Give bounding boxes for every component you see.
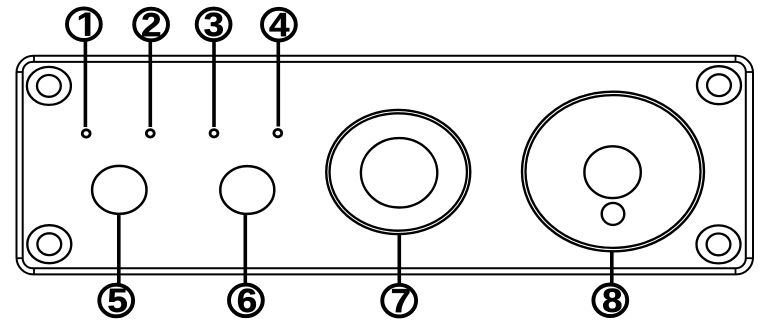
screw bottom-left [27,225,71,263]
callout 5 [99,285,133,317]
leader line 4 [276,39,280,127]
panel inner face outline [23,62,746,268]
leader line 3 [212,39,216,127]
callout 4 [262,9,296,41]
led indicator 2 [146,130,154,137]
led indicator 1 [82,130,90,137]
led indicator 4 [274,129,282,136]
knob 7 outer ring [326,110,470,234]
callout 2 [134,9,168,41]
leader line 5 [117,213,121,286]
leader line 2 [149,39,153,127]
leader line 6 [244,213,248,286]
screw top-right [697,66,741,104]
leader line 7 [397,234,401,286]
panel outer outline [17,56,754,275]
button 6 [220,166,274,214]
callout 8 [593,285,627,317]
led indicator 3 [210,130,218,137]
screw top-left [27,67,71,105]
callout 3 [197,9,231,41]
panel corner bevel ticks [17,56,754,275]
callout 7 [382,285,416,317]
leader line 8 [610,251,614,286]
leader line 1 [84,39,88,127]
speaker 8 [522,92,704,252]
screw bottom-right [697,225,741,263]
callout 1 [67,8,101,40]
callout 6 [229,285,263,317]
button 5 [92,166,146,214]
